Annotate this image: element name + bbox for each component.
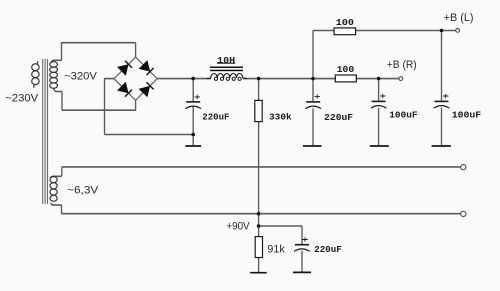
svg-text:+B (R): +B (R) [387,59,417,71]
svg-text:220uF: 220uF [314,244,342,255]
svg-text:~6,3V: ~6,3V [67,184,99,196]
svg-text:~230V: ~230V [5,92,39,104]
svg-text:~320V: ~320V [64,71,97,83]
svg-text:100uF: 100uF [452,109,482,120]
svg-text:100uF: 100uF [389,109,417,120]
svg-text:100: 100 [336,17,354,28]
svg-text:220uF: 220uF [324,112,353,123]
svg-text:91k: 91k [267,243,285,255]
svg-text:+90V: +90V [226,220,250,232]
svg-text:100: 100 [337,64,355,75]
svg-text:10H: 10H [217,55,235,66]
svg-text:220uF: 220uF [202,111,229,122]
svg-text:330k: 330k [269,111,292,122]
svg-text:+B (L): +B (L) [444,12,474,24]
